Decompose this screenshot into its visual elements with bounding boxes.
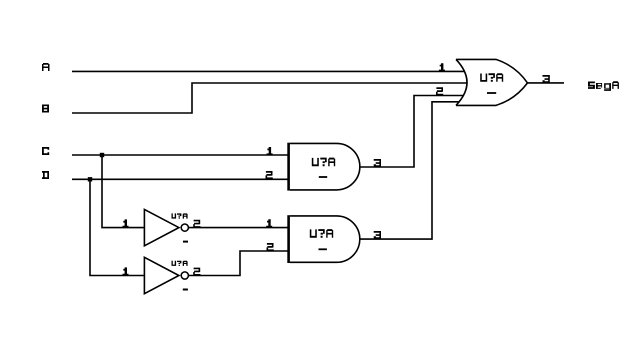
and-gate U2 value dash [319,176,327,178]
input label A [42,63,50,71]
pin number 3 of U1 [543,75,550,83]
pin number 1 of U5 [123,267,129,275]
or-gate U1 body [456,59,528,105]
inverter U5 bubble [181,272,188,279]
wire U2 output to U1 pin2 [360,96,464,168]
and-gate U3 value dash [319,248,327,250]
or-gate U1 refdes U?A [480,73,503,82]
inverter U4 value dash [183,241,188,243]
wire U4 output to U3 pin1 [189,227,289,229]
inverter U5 value dash [183,289,188,291]
input label D [42,171,49,179]
input label B [42,105,49,113]
inverter U4 triangle [144,209,179,245]
input label C [42,147,49,155]
and-gate U2 body [290,143,360,190]
junction on D net [88,177,92,181]
and-gate U2 left edge [287,143,290,191]
pin number 2 of U3 [267,243,274,251]
wire D branch to U5 input [90,179,144,275]
pin number 1 of U3 [266,219,272,227]
inverter U5 refdes U?A [172,261,188,266]
and-gate U3 refdes U?A [310,229,333,238]
wire D to U2 pin2 [72,178,289,180]
or-gate U1 value dash [487,92,496,94]
wire U3 output to U1 lower input [360,102,459,239]
junction on C net [100,153,104,157]
pin number 2 of U1 [436,87,443,95]
pin number 1 of U4 [123,219,129,227]
wire A to U1 pin1 [72,70,465,72]
pin number 3 of U2 [374,159,381,167]
inverter U4 bubble [181,224,188,231]
pin number 1 of U2 [267,147,273,155]
pin number 2 of U4 [193,220,200,228]
inverter U4 refdes U?A [172,213,188,218]
and-gate U3 left edge [287,215,290,263]
pin number 3 of U3 [374,231,381,239]
wire B to U1 second input [72,83,467,113]
pin number 2 of U2 [266,171,273,179]
inverter U5 triangle [144,257,179,293]
wire U1 pin3 output [528,82,565,84]
and-gate U2 refdes U?A [312,158,335,167]
pin number 2 of U5 [193,268,200,276]
and-gate U3 body [290,216,360,262]
wire C branch to U4 input [102,155,144,228]
net label SegA [588,81,619,91]
pin number 1 of U1 [439,63,445,71]
wire U5 output to U3 pin2 [189,251,289,276]
wire C to U2 pin1 [72,154,289,156]
